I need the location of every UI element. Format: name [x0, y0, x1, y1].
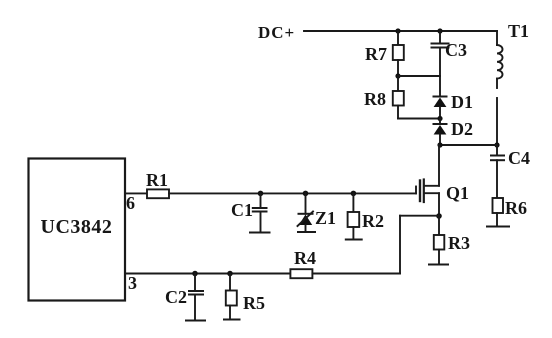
transistor Q1 (N-MOSFET) — [415, 187, 417, 194]
ground below R5 — [224, 319, 240, 321]
svg-text:UC3842: UC3842 — [41, 216, 113, 238]
diode D2 — [439, 119, 441, 125]
node junction top rail / R7 — [395, 28, 400, 33]
svg-text:C2: C2 — [165, 287, 187, 307]
resistor R8 — [397, 76, 399, 91]
wire pin 3 rail — [125, 273, 290, 275]
svg-text:R4: R4 — [294, 248, 316, 268]
node junction R7 / R8 — [395, 73, 400, 78]
wire sense vertical — [399, 216, 401, 274]
svg-text:Z1: Z1 — [315, 208, 336, 228]
wire R4 to sense vertical — [312, 273, 400, 275]
wire gate rail R1 to Q1 gate — [169, 192, 416, 194]
resistor R5 — [229, 274, 231, 291]
wire T1 bottom lead upper — [496, 79, 498, 88]
transformer T1 winding — [497, 45, 503, 79]
wire Q1 source to sense vertical — [400, 215, 439, 217]
node junction D1 / D2 / R8 — [437, 116, 442, 121]
wire T1 top lead — [496, 31, 498, 45]
svg-text:Q1: Q1 — [446, 183, 469, 203]
node junction pin3 rail / R5 — [227, 271, 233, 277]
ground below Z1 — [298, 231, 315, 233]
node junction top rail / C3 — [437, 28, 442, 33]
node junction gate rail / C1 — [258, 191, 264, 197]
svg-text:C4: C4 — [508, 148, 530, 168]
resistor R2 — [352, 193, 354, 212]
resistor R7 — [397, 31, 399, 45]
svg-text:C3: C3 — [445, 40, 467, 60]
capacitor C1 — [260, 193, 262, 208]
ground below C1 — [250, 232, 270, 234]
capacitor C3 — [439, 31, 441, 44]
svg-text:D1: D1 — [451, 92, 473, 112]
svg-text:R6: R6 — [505, 198, 527, 218]
wire drain rail horizontal — [439, 144, 497, 146]
svg-text:T1: T1 — [508, 21, 529, 41]
ground below C2 — [186, 320, 205, 322]
resistor R6 — [493, 198, 504, 213]
svg-text:D2: D2 — [451, 119, 473, 139]
zener diode Z1 — [305, 193, 307, 213]
svg-text:3: 3 — [128, 273, 137, 293]
node junction gate rail / Z1 — [303, 191, 309, 197]
resistor R4 — [290, 269, 312, 278]
node junction D2 / drain rail — [437, 142, 442, 147]
svg-text:R7: R7 — [365, 44, 387, 64]
chip U1 UC3842 body — [29, 159, 126, 301]
node junction pin3 rail / C2 — [192, 271, 198, 277]
resistor R1 — [147, 189, 169, 198]
node junction T1 / C4 / drain rail — [494, 142, 499, 147]
resistor R3 — [438, 216, 440, 235]
ground below R3 — [429, 264, 448, 266]
ground below R2 — [346, 239, 362, 241]
wire R8 bottom to D1-D2 junction — [398, 118, 440, 120]
diode D1 — [434, 96, 447, 98]
svg-text:R5: R5 — [243, 293, 265, 313]
wire drain column — [438, 145, 440, 186]
capacitor C2 — [194, 274, 196, 292]
ground below R6 — [487, 226, 509, 228]
svg-text:R8: R8 — [364, 89, 386, 109]
svg-text:R2: R2 — [362, 211, 384, 231]
svg-text:C1: C1 — [231, 200, 253, 220]
svg-text:R1: R1 — [146, 170, 168, 190]
wire pin 6 to R1 — [125, 192, 147, 194]
node junction gate rail / R2 — [351, 191, 357, 197]
svg-text:DC+: DC+ — [258, 23, 295, 42]
svg-text:R3: R3 — [448, 233, 470, 253]
wire T1 bottom lead lower — [496, 98, 498, 145]
capacitor C4 — [496, 145, 498, 155]
node junction Q1 source / R3 — [436, 213, 442, 219]
wire R7-R8 junction to C3 column — [398, 75, 440, 77]
wire top rail from DC+ to T1 — [304, 30, 497, 32]
svg-text:6: 6 — [126, 193, 135, 213]
